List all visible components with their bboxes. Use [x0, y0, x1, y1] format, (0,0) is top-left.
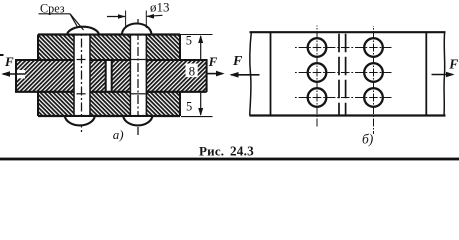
butt gap between middle plates	[107, 61, 111, 91]
leader underline for Срез	[39, 13, 71, 15]
bottom cover outline	[38, 115, 180, 117]
o13 dim line left with arrow	[107, 16, 125, 18]
plate top edge	[250, 31, 446, 33]
o13 extension line right	[145, 11, 147, 29]
plate right break edge (wavy)	[443, 32, 446, 115]
rivet 2 hole edges	[129, 35, 131, 117]
value 8 box	[186, 64, 198, 78]
plate left break edge (wavy)	[250, 32, 252, 115]
plate edge under bottom head 2	[122, 115, 153, 117]
row centerline 1	[295, 47, 392, 49]
o13 dim line right with arrow	[147, 14, 163, 17]
row centerline 2	[295, 72, 392, 74]
row centerline 3	[295, 97, 392, 99]
small mark on left edge	[0, 54, 4, 56]
svg-text:8: 8	[189, 64, 196, 79]
gap edge left	[105, 60, 107, 92]
plate edge under heads	[66, 34, 100, 36]
middle plate right end	[206, 59, 208, 92]
butt joint dashed line right	[345, 34, 347, 116]
svg-text:24.3: 24.3	[230, 143, 254, 158]
svg-text:F: F	[448, 56, 458, 71]
cover plate edge right	[425, 32, 427, 115]
right side dimension extension top	[180, 34, 213, 36]
plate: top cover (hatched \)	[38, 35, 180, 61]
plate: middle right (hatched /)	[112, 60, 207, 92]
rivet circles	[308, 38, 327, 57]
svg-text:б): б)	[362, 132, 374, 147]
svg-text:5: 5	[186, 100, 192, 114]
plate: bottom cover (hatched \)	[38, 92, 180, 117]
bottom rule	[0, 158, 459, 161]
cover plate edge left	[270, 32, 272, 115]
svg-text:F: F	[208, 54, 218, 69]
plate bottom edge	[250, 114, 446, 116]
white notch behind left force arrow	[17, 70, 25, 78]
svg-text:5: 5	[186, 34, 192, 48]
leader lines to rivet head	[70, 14, 78, 27]
tick marks on rivet centerlines at plate boundaries	[77, 59, 86, 61]
rivet 2 shaft (white band)	[131, 36, 146, 115]
plate edge under bottom head 1	[64, 115, 96, 117]
dim line 5 bottom	[200, 92, 202, 115]
svg-text:ø13: ø13	[150, 0, 170, 15]
o13 extension line left	[125, 11, 127, 29]
rivet 2 centerline	[137, 19, 139, 135]
butt joint dashed line left	[338, 34, 340, 116]
plate: middle left (hatched /)	[16, 60, 106, 92]
svg-text:F: F	[232, 54, 243, 69]
rivet 1 hole edges	[73, 35, 75, 117]
rivet 1 centerline	[81, 27, 83, 135]
svg-text:а): а)	[113, 127, 124, 142]
rivet 2 top head	[122, 24, 151, 35]
rivet 1 top head	[67, 27, 99, 35]
column centerline 1	[316, 26, 318, 128]
rivet 1 shaft (white band)	[75, 36, 90, 115]
boundary line y91.5	[15, 91, 207, 93]
gap edge right	[111, 60, 113, 92]
column centerline 2	[373, 26, 375, 134]
top cover outline	[38, 33, 180, 35]
rivet 1 bottom head	[65, 116, 95, 125]
svg-text:F: F	[4, 54, 14, 69]
svg-text:Рис.: Рис.	[199, 143, 224, 158]
middle plate left end	[15, 59, 17, 92]
boundary line y60	[15, 59, 207, 61]
right side dimension extension bottom	[181, 116, 213, 118]
plate edge under top head 2	[121, 34, 152, 36]
rivet 2 bottom head	[123, 116, 152, 125]
dim line 5 top	[200, 36, 202, 60]
